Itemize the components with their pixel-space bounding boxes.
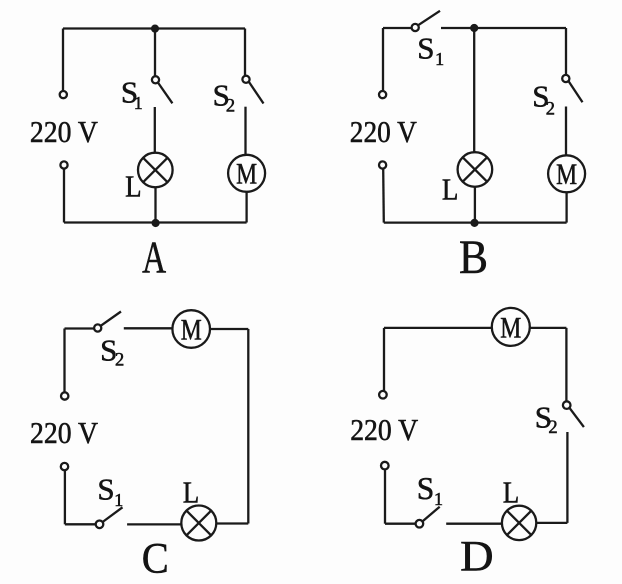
node A top junction [151, 25, 159, 33]
wire C top right segment [210, 328, 248, 330]
wire A S1 drop [154, 29, 156, 77]
svg-text:L: L [183, 475, 200, 510]
wire D bottom right segment [536, 522, 567, 524]
wire B right lead upper [565, 28, 567, 75]
svg-text:2: 2 [115, 350, 124, 370]
svg-text:2: 2 [548, 418, 557, 438]
switch S2 (A) [242, 76, 263, 104]
motor M (D) [492, 308, 530, 346]
terminal B supply bottom [379, 161, 386, 168]
terminal C supply bottom [61, 463, 68, 470]
switch S1 (D) [416, 507, 440, 528]
wire B bottom bus [384, 221, 567, 223]
svg-text:2: 2 [546, 99, 555, 119]
wire B lamp drop [473, 28, 475, 152]
switch S2 (D) [563, 401, 584, 427]
svg-text:M: M [181, 314, 202, 346]
svg-text:220 V: 220 V [30, 416, 98, 450]
terminal D supply top [379, 391, 387, 399]
svg-text:1: 1 [434, 489, 443, 509]
svg-text:D: D [460, 533, 494, 581]
terminal A supply bottom [60, 161, 67, 168]
svg-text:M: M [556, 159, 577, 191]
wire A S2 drop [244, 29, 246, 77]
wire A S2 to motor [244, 107, 246, 155]
lamp L (B) [458, 152, 493, 187]
wire D top right segment [530, 327, 567, 329]
svg-text:1: 1 [435, 49, 444, 69]
wire A bottom bus [64, 221, 247, 223]
label S1 (D) [417, 471, 443, 509]
lamp L (C) [181, 506, 216, 541]
wire C top middle segment [124, 327, 173, 329]
wire B top right segment [441, 27, 566, 29]
wire A left lead upper [62, 29, 64, 91]
svg-text:220 V: 220 V [350, 413, 418, 447]
svg-text:1: 1 [114, 490, 123, 510]
wire A top bus [63, 27, 245, 29]
wire D right lead lower [566, 432, 568, 523]
wire C left lead lower [64, 470, 66, 524]
terminal B supply top [379, 91, 386, 98]
svg-text:S: S [417, 30, 434, 65]
wire C bottom right segment [216, 522, 248, 524]
wire C bottom middle segment [127, 523, 181, 525]
svg-text:2: 2 [226, 97, 235, 117]
label S2 (C) [100, 333, 124, 371]
terminal C supply top [61, 392, 68, 399]
node B top junction [470, 24, 478, 32]
wire D left lead upper [383, 328, 385, 391]
label S1 (A) [121, 75, 143, 113]
svg-text:L: L [442, 171, 459, 206]
wire B motor to bottom bus [565, 192, 567, 222]
wire D right lead upper [565, 328, 567, 401]
wire B top left segment [383, 27, 412, 29]
label S1 (C) [97, 471, 123, 510]
svg-text:B: B [459, 231, 488, 284]
wire B left lead upper [382, 28, 384, 91]
node B bottom junction [470, 219, 478, 227]
motor M (C) [172, 310, 210, 348]
lamp L (D) [502, 506, 536, 540]
switch S1 (A) [152, 76, 173, 103]
wire B S2 to motor [565, 107, 567, 156]
wire C top left segment [65, 327, 95, 329]
wire A lamp to bottom bus [154, 187, 156, 222]
label S2 (B) [532, 79, 555, 120]
svg-text:C: C [142, 535, 169, 582]
svg-text:A: A [142, 232, 166, 283]
wire C bottom left segment [65, 523, 96, 525]
svg-text:S: S [97, 471, 114, 506]
wire D top left segment [384, 327, 492, 329]
switch S1 (B) [412, 11, 440, 31]
switch S2 (C) [94, 312, 121, 332]
wire D left lead lower [384, 469, 386, 523]
terminal D supply bottom [381, 462, 389, 470]
wire D bottom left segment [385, 523, 416, 525]
svg-text:220 V: 220 V [30, 115, 98, 149]
svg-text:S: S [417, 471, 435, 506]
motor M (B) [548, 155, 585, 192]
switch S1 (C) [96, 507, 123, 528]
svg-text:L: L [503, 475, 520, 510]
svg-text:1: 1 [134, 93, 143, 113]
terminal A supply top [60, 91, 67, 98]
label S2 (D) [535, 399, 558, 438]
svg-text:M: M [500, 312, 521, 344]
wire C right lead [247, 329, 249, 524]
svg-text:L: L [125, 169, 142, 204]
wire B lamp to bottom bus [474, 187, 476, 223]
label S2 (A) [213, 77, 236, 116]
svg-text:220 V: 220 V [350, 115, 417, 149]
motor M (A) [228, 155, 265, 192]
wire A S1 to lamp [154, 107, 156, 153]
label S1 (B) [417, 30, 444, 69]
wire A left lead lower [63, 169, 65, 223]
wire D bottom middle segment [446, 523, 502, 525]
wire C left lead upper [63, 329, 65, 393]
switch S2 (B) [562, 75, 582, 102]
wire A motor to bottom bus [245, 192, 247, 223]
lamp L (A) [138, 153, 173, 188]
svg-text:M: M [236, 159, 257, 191]
wire B left lead lower [382, 169, 385, 223]
node A bottom junction [152, 219, 160, 227]
